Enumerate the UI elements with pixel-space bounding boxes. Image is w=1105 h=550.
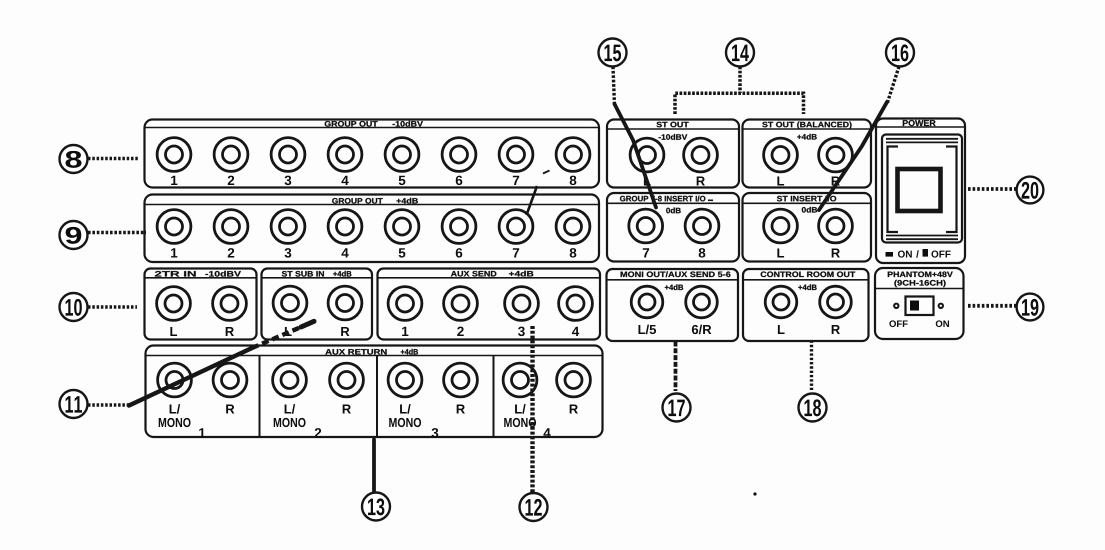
label R (ST INSERT) [832, 249, 840, 258]
title -10dBV [393, 121, 423, 127]
power switch housing [882, 135, 962, 243]
label 3 (GROUP OUT -10dBV) [285, 176, 292, 186]
leader 11 diagonal dashed tip [252, 325, 305, 348]
jack GROUP OUT +4dB 6 [442, 210, 476, 244]
label ON (phantom) [936, 320, 949, 327]
label / (power) [916, 250, 919, 257]
title ST OUT [657, 122, 689, 128]
label R (2TR IN) [226, 327, 234, 336]
leader 15 stem [613, 67, 615, 107]
leader 18 [810, 341, 813, 391]
jack CONTROL ROOM R [820, 286, 852, 318]
panel MONI OUT/AUX SEND 5-6 [607, 269, 739, 341]
panel AUX SEND +4dB [378, 269, 601, 340]
label MONO (AUX RETURN 4) [504, 418, 536, 427]
jack AUX RETURN 1 L/MONO [158, 363, 192, 397]
jack AUX RETURN 4 L/MONO [503, 363, 537, 397]
label MONO (AUX RETURN 1) [159, 418, 191, 427]
leader 15 diagonal [615, 104, 657, 208]
stray mark near jack 7 row1 [543, 171, 550, 174]
label 4 (AUX SEND) [572, 327, 579, 336]
phantom screw left [894, 304, 898, 308]
jack GROUP OUT -10dBV 2 [214, 138, 248, 172]
label R (ST SUB IN) [341, 327, 349, 336]
jack GROUP OUT +4dB 2 [214, 210, 248, 244]
title +4dB (ST SUB IN) [333, 271, 351, 277]
label group 1 (AUX RETURN) [199, 428, 205, 437]
jack ST INSERT R [819, 209, 853, 243]
callout 9 [60, 221, 88, 249]
leader 19 [968, 304, 1017, 308]
callout 18 [799, 394, 827, 422]
label 8 (GROUP 7-8 INSERT) [699, 248, 706, 258]
jack ST SUB IN R [328, 286, 362, 320]
label L (ST SUB IN, partly hidden) [285, 327, 292, 336]
title ST INSERT I/O [777, 196, 836, 202]
callout 12 [520, 493, 548, 521]
callout 17 [663, 394, 691, 422]
power OFF symbol [923, 249, 929, 257]
leader 20 [968, 187, 1017, 191]
label L (CONTROL ROOM) [778, 325, 785, 334]
label 7 (GROUP 7-8 INSERT) [643, 248, 649, 257]
leader 14 stem [738, 67, 742, 94]
panel GROUP OUT +4dB [145, 195, 600, 263]
panel GROUP OUT -10dBV [145, 120, 600, 188]
label L/5 [638, 325, 656, 335]
sublabel -10dBV (ST OUT) [659, 134, 688, 140]
label L (ST OUT BALANCED) [777, 177, 784, 186]
leader 11 solid tip [301, 321, 314, 327]
callout 8 [60, 145, 88, 173]
callout 15 [599, 39, 627, 67]
jack AUX RETURN 1 R [213, 363, 247, 397]
title +4dB (AUX RETURN) [401, 349, 418, 355]
label 3 (AUX SEND) [518, 327, 525, 337]
label R (ST OUT) [697, 177, 705, 186]
panel ST INSERT I/O [743, 193, 872, 262]
label 2 (GROUP OUT -10dBV) [228, 176, 234, 185]
label MONO (AUX RETURN 2) [274, 418, 306, 427]
label 2 (GROUP OUT +4dB) [228, 248, 234, 257]
leader 16 stem [887, 67, 899, 105]
callout 10 [60, 293, 88, 321]
jack GROUP OUT -10dBV 7 [499, 138, 533, 172]
jack ST OUT L [630, 138, 664, 172]
label L (2TR IN) [170, 327, 177, 336]
label L/ (AUX RETURN 1) [170, 404, 181, 414]
label L (ST INSERT) [777, 249, 784, 258]
panel ST OUT (BALANCED) [743, 120, 872, 188]
sublabel +4dB (ST OUT BALANCED) [797, 134, 816, 140]
panel ST SUB IN +4dB [262, 269, 373, 340]
jack AUX SEND 2 [444, 287, 478, 321]
label OFF (phantom) [889, 320, 907, 327]
divider AUX RETURN 2|3 [376, 356, 378, 436]
power ON symbol [886, 252, 894, 257]
label 6/R [692, 325, 711, 335]
panel PHANTOM +48V [875, 268, 964, 339]
title (9CH-16CH) [894, 280, 945, 287]
callout 11 [60, 390, 88, 418]
jack GROUP OUT -10dBV 1 [157, 138, 191, 172]
label 1 (AUX SEND) [402, 327, 408, 336]
leader 8 [88, 157, 139, 161]
jack MONI OUT 6/R [686, 286, 718, 318]
label MONO (AUX RETURN 3) [389, 418, 421, 427]
label 1 (GROUP OUT -10dBV) [171, 176, 177, 185]
callout 14 [726, 39, 754, 67]
panel POWER [876, 119, 965, 264]
jack GROUP OUT +4dB 1 [157, 210, 191, 244]
jack GROUP 7-8 INSERT 8 [685, 209, 719, 243]
leader 13 [372, 440, 376, 493]
jack GROUP OUT -10dBV 4 [328, 138, 362, 172]
label 7 (GROUP OUT +4dB) [513, 248, 519, 257]
title ST OUT (BALANCED) [762, 122, 851, 129]
jack ST OUT BALANCED R [819, 138, 853, 172]
jack GROUP OUT -10dBV 5 [385, 138, 419, 172]
title CONTROL ROOM OUT [761, 272, 856, 278]
jack 2TR IN R [213, 287, 247, 321]
jack CONTROL ROOM L [765, 286, 797, 318]
panel ST OUT [607, 120, 739, 188]
stray diagonal between rows at jack 7 [527, 186, 538, 215]
title PHANTOM+48V [888, 272, 953, 278]
divider AUX RETURN 1|2 [259, 356, 261, 436]
jack AUX SEND 4 [559, 287, 593, 321]
jack MONI OUT L/5 [631, 286, 663, 318]
label R (ST OUT BALANCED) [832, 177, 840, 186]
jack GROUP OUT -10dBV 3 [271, 138, 305, 172]
label ON (power) [898, 251, 912, 258]
label 4 (GROUP OUT -10dBV) [341, 176, 348, 185]
jack AUX SEND 1 [388, 287, 422, 321]
leader 10 [88, 305, 137, 309]
title AUX SEND [451, 271, 497, 277]
leader 11 horizontal [88, 403, 131, 407]
callout 19 [1017, 294, 1044, 321]
callout 20 [1017, 177, 1044, 204]
power switch button [898, 169, 941, 211]
title +4dB [396, 198, 417, 204]
title POWER [903, 120, 936, 126]
jack GROUP OUT +4dB 8 [556, 210, 590, 244]
leader 16 diagonal [819, 102, 887, 210]
panel GROUP 7-8 INSERT I/O [607, 193, 739, 262]
label L (ST OUT) [644, 177, 651, 186]
jack AUX RETURN 2 L/MONO [273, 363, 307, 397]
title AUX RETURN [325, 349, 386, 354]
label 3 (GROUP OUT +4dB) [285, 248, 292, 258]
sublabel +4dB (CONTROL ROOM) [798, 284, 816, 290]
panel 2TR IN -10dBV [145, 269, 257, 340]
jack AUX RETURN 4 R [557, 363, 591, 397]
label OFF (power) [931, 251, 950, 258]
leader 12 [530, 326, 534, 493]
jack 2TR IN L [157, 287, 191, 321]
jack GROUP OUT +4dB 7 [499, 210, 533, 244]
jack AUX RETURN 3 R [444, 363, 478, 397]
panel AUX RETURN +4dB [146, 346, 603, 438]
jack ST SUB IN L [273, 286, 307, 320]
jack GROUP OUT +4dB 4 [328, 210, 362, 244]
label group 2 (AUX RETURN) [315, 428, 321, 437]
title -10dBV (2TR IN) [205, 271, 241, 277]
panel CONTROL ROOM OUT [743, 269, 869, 341]
label L/ (AUX RETURN 4) [515, 404, 526, 414]
label R (AUX RETURN 1) [226, 405, 234, 414]
title +4dB (AUX SEND) [509, 271, 533, 277]
title MONI OUT/AUX SEND 5-6 [621, 271, 731, 277]
title GROUP OUT [325, 121, 378, 127]
label group 4 (AUX RETURN) [543, 428, 550, 437]
title GROUP 7-8 INSERT I/O [620, 196, 705, 202]
leader 14 bracket [675, 93, 804, 114]
stray dot bottom center [753, 492, 756, 495]
jack ST INSERT L [764, 209, 798, 243]
jack GROUP OUT -10dBV 6 [442, 138, 476, 172]
label L/ (AUX RETURN 3) [400, 404, 411, 414]
label 5 (GROUP OUT -10dBV) [399, 176, 406, 185]
label 7 (GROUP OUT -10dBV) [513, 176, 519, 185]
leader 9 [88, 231, 146, 235]
label 6 (GROUP OUT -10dBV) [456, 176, 463, 186]
callout 16 [886, 39, 914, 67]
label 8 (GROUP OUT -10dBV) [570, 176, 577, 186]
phantom screw right [939, 304, 943, 308]
jack ST OUT BALANCED L [764, 138, 798, 172]
divider AUX RETURN 3|4 [493, 356, 495, 436]
phantom switch [906, 297, 934, 316]
jack AUX RETURN 2 R [330, 363, 364, 397]
label 8 (GROUP OUT +4dB) [570, 248, 577, 258]
label 4 (GROUP OUT +4dB) [341, 248, 348, 257]
title ST SUB IN [282, 271, 324, 277]
jack GROUP OUT -10dBV 8 [556, 138, 590, 172]
jack GROUP 7-8 INSERT 7 [629, 209, 663, 243]
stray underscore mark after title [708, 199, 713, 201]
jack GROUP OUT +4dB 5 [385, 210, 419, 244]
sublabel +4dB (MONI OUT) [665, 284, 683, 290]
jack GROUP OUT +4dB 3 [271, 210, 305, 244]
sublabel 0dB (GROUP 7-8 INSERT) [666, 208, 681, 214]
leader 17 [674, 342, 678, 392]
label R (AUX RETURN 3) [457, 405, 465, 414]
label 2 (AUX SEND) [457, 327, 463, 336]
callout 13 [362, 493, 390, 521]
label R (AUX RETURN 4) [570, 405, 578, 414]
sublabel 0dB (ST INSERT) [802, 207, 817, 213]
jack AUX SEND 3 [505, 287, 539, 321]
leader 11 diagonal [129, 348, 252, 406]
label L/ (AUX RETURN 2) [285, 404, 296, 414]
label R (AUX RETURN 2) [343, 405, 351, 414]
label 6 (GROUP OUT +4dB) [456, 248, 463, 258]
jack AUX RETURN 3 L/MONO [388, 363, 422, 397]
label group 3 (AUX RETURN) [432, 428, 439, 438]
label 5 (GROUP OUT +4dB) [399, 248, 406, 257]
title 2TR IN [155, 271, 196, 276]
label R (CONTROL ROOM) [832, 325, 840, 334]
label 1 (GROUP OUT +4dB) [171, 248, 177, 257]
title GROUP OUT +4dB left [332, 198, 383, 204]
jack ST OUT R [684, 138, 718, 172]
